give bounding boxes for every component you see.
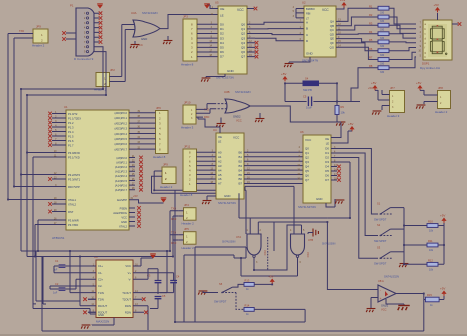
svg-text:R1IN: R1IN [125,304,131,308]
svg-text:Q5: Q5 [305,169,309,173]
svg-text:GND: GND [316,197,322,201]
svg-text:U3A: U3A [131,11,137,15]
header JP8 (2-way) [438,91,451,109]
decoder U2 74LS47 [304,6,336,57]
svg-text:XTAL1: XTAL1 [68,198,77,202]
wire serial rails into U9 [21,251,173,306]
svg-text:P1.4: P1.4 [68,130,74,134]
wire left vertical rails [8,34,27,257]
svg-text:TXD: TXD [171,208,176,211]
wire C2 to U9 [50,279,88,289]
wire gate feeds from headers [184,247,246,258]
capacitor C1 [59,265,66,267]
svg-text:B5: B5 [238,173,242,177]
wire resistors to +5V rail [438,223,444,264]
svg-text:U7B: U7B [308,238,313,242]
ground below U5 [201,78,210,82]
resistor R11 [427,243,438,247]
svg-text:Q3: Q3 [305,160,309,164]
svg-text:(AD4)P0.4: (AD4)P0.4 [114,132,127,136]
svg-text:D6: D6 [325,174,329,178]
svg-text:LE: LE [218,139,221,143]
svg-text:(A13)P2.5: (A13)P2.5 [115,179,128,183]
svg-text:Q3: Q3 [241,36,245,40]
svg-text:D1: D1 [220,27,224,31]
svg-text:C5: C5 [303,95,307,99]
wire long nets to latch gates [152,190,247,193]
wire S5 to R13 [233,284,244,287]
wire R13 to +5V [254,283,272,286]
svg-text:10uF: 10uF [306,106,312,110]
no-connects on U6 pins [337,165,341,169]
svg-text:TXD: TXD [19,30,24,33]
header JP6 (8-way, MCU port0) [156,111,169,154]
no-connects MCU bottom-right [137,206,141,210]
svg-text:VCC: VCC [125,264,131,268]
wire U6 GND [326,199,335,207]
svg-text:JP9: JP9 [163,163,168,167]
svg-text:S3: S3 [377,246,381,250]
svg-text:JP8: JP8 [438,86,443,90]
ground on switch bus [399,264,408,268]
svg-text:R6: R6 [369,47,373,51]
wire R15 to +5V [439,296,444,300]
svg-text:(AD6)P0.6: (AD6)P0.6 [114,142,127,146]
wire JP5 pins [178,235,183,240]
wire row-8 feed [351,68,378,102]
svg-text:D2: D2 [325,156,329,160]
svg-text:+5V: +5V [434,3,439,7]
svg-text:VCC: VCC [233,136,240,140]
bottom window edge [0,334,467,336]
wire bottom loop [36,251,80,304]
op-amp U8 [378,285,396,302]
svg-text:10k: 10k [341,111,346,115]
ground right of U3B [259,113,261,118]
svg-text:DSP1: DSP1 [422,62,430,66]
svg-text:D5: D5 [325,169,329,173]
svg-text:P1.6: P1.6 [68,139,74,143]
ground below JP8 [416,105,425,109]
resistors R1-R8 with values [378,6,389,10]
svg-text:T2OUT: T2OUT [122,297,131,301]
resistor R10 [427,224,438,228]
rotated ground near U7B [313,229,318,237]
svg-text:C1: C1 [55,259,59,263]
svg-text:(A11)P2.3: (A11)P2.3 [115,170,127,174]
svg-text:AT89C51: AT89C51 [52,236,65,240]
svg-text:SW-SPDT: SW-SPDT [374,239,387,243]
svg-text:VCC: VCC [381,308,387,312]
wire C3 [141,269,158,294]
wire U6 outputs to switches [337,149,378,215]
wire JP3 to U5 data pins [197,24,218,56]
wire MCU P0 to JP6 [129,113,150,149]
svg-text:T1IN: T1IN [98,291,104,295]
svg-text:Header 2: Header 2 [435,110,448,114]
svg-text:GND2: GND2 [233,114,241,118]
svg-text:(A9)P2.1: (A9)P2.1 [116,160,127,164]
power flag at MCU EA [161,199,167,203]
svg-text:D1: D1 [325,151,329,155]
power +5V at U9 VCC [141,255,153,266]
svg-text:U4: U4 [213,128,217,132]
svg-text:R2: R2 [369,13,373,17]
header JP5 (2-way) [184,232,197,245]
wire U2 control stubs [296,9,304,18]
wire C5b [150,299,158,309]
wire latch cross-coupling [239,190,327,276]
svg-text:C2+: C2+ [98,278,103,282]
svg-text:Q0: Q0 [241,22,245,26]
svg-text:Q2: Q2 [305,156,309,160]
wire U3A inputs [122,25,135,30]
svg-text:R4: R4 [369,30,373,34]
svg-text:SW-SPDT: SW-SPDT [214,300,227,304]
svg-text:(AD1)P0.1: (AD1)P0.1 [114,116,127,120]
svg-text:B7: B7 [238,182,242,186]
capacitor C3 [155,281,162,283]
svg-text:D7: D7 [325,178,329,182]
svg-text:330: 330 [380,54,385,57]
svg-text:R3: R3 [369,21,373,25]
wire U3A output to U5 LE [160,15,218,29]
svg-text:R2IN: R2IN [125,311,131,315]
svg-text:A1: A1 [218,155,222,159]
wire JP8 pins [424,90,438,104]
capacitor C2 [59,288,66,290]
svg-text:S5: S5 [219,282,223,286]
svg-text:JP6: JP6 [156,106,161,110]
svg-text:+: + [380,297,382,301]
svg-text:Q7: Q7 [305,178,309,182]
header JP11 (8-way) [183,149,197,192]
svg-text:RXD: RXD [171,218,176,221]
switch S3 SW-SPDT [380,257,382,259]
svg-text:330: 330 [380,45,385,48]
wire MCU P2 stubs [129,158,135,190]
svg-text:RST: RST [68,210,74,214]
svg-text:JP7: JP7 [390,86,395,90]
svg-text:B2: B2 [238,159,242,163]
svg-text:RBI: RBI [306,12,311,16]
svg-text:D3: D3 [220,36,224,40]
svg-text:(AD7)P0.7: (AD7)P0.7 [114,147,127,151]
svg-text:C1+: C1+ [98,264,103,268]
svg-text:Header 8: Header 8 [153,155,166,159]
svg-text:C5: C5 [162,294,166,298]
svg-text:RDY/VPP: RDY/VPP [68,185,80,189]
svg-text:R8: R8 [369,64,373,68]
wire C1 to U9 [54,266,88,273]
svg-text:Header 2: Header 2 [32,44,45,48]
wire U6 net down [337,162,350,218]
svg-text:XTAL2: XTAL2 [119,224,128,228]
svg-text:D4: D4 [220,41,224,45]
wire U5 VCC stub [247,8,254,10]
wire bottom bus border [41,330,43,332]
header JP9 (2-way) [162,167,176,184]
wire JP10 pins [196,109,203,117]
header JP1A (below DB9) [96,73,110,87]
wire T1OUT loop [141,293,167,330]
no-connect stubs left of DB9 [66,33,76,39]
capacitor C5 [308,97,311,107]
svg-text:Q5: Q5 [241,46,245,50]
svg-text:D3: D3 [325,160,329,164]
svg-text:JP3: JP3 [183,15,188,19]
svg-text:S1: S1 [377,202,381,206]
svg-text:D2: D2 [220,32,224,36]
svg-text:(A10)P2.2: (A10)P2.2 [115,165,128,169]
power flag on DB9 shell [99,5,101,8]
ground near U3A [134,41,136,44]
svg-text:C2-: C2- [98,284,102,288]
svg-text:P3.3/INT1: P3.3/INT1 [68,177,81,181]
svg-text:U8:A: U8:A [378,279,384,283]
resistor R12 [427,262,438,266]
wire bus to pull resistors [404,226,427,265]
wire serial header nets [170,211,178,257]
svg-text:S4: S4 [305,77,309,81]
svg-text:SN74LS373N: SN74LS373N [218,201,236,205]
svg-text:B1: B1 [238,155,242,159]
wire latch output to comparator [327,222,378,290]
wire DB9 pin stubs [94,13,99,51]
svg-text:D4: D4 [325,165,329,169]
power +5V at display [435,7,440,10]
wire JP7 pins [378,90,390,110]
wire MAX232 left stubs [88,266,96,312]
svg-text:LE: LE [326,142,329,146]
svg-text:Header 3: Header 3 [387,114,400,118]
svg-text:A4: A4 [218,168,222,172]
svg-text:-: - [380,289,381,293]
svg-text:R10: R10 [428,220,433,224]
switch S1 SW-SPDT [380,213,382,215]
svg-text:GND: GND [98,313,104,317]
svg-text:SN74LS373N: SN74LS373N [298,205,316,209]
svg-text:Header 2: Header 2 [182,222,195,226]
resistor R9 (pull) [335,106,339,115]
svg-text:P1.1/T2EX: P1.1/T2EX [68,116,81,120]
svg-text:C2: C2 [55,282,59,286]
svg-text:P3.0/RXD: P3.0/RXD [68,151,80,155]
wire U4 GND [207,196,216,200]
wire MCU EA to +5V [129,200,164,203]
svg-text:MAX232N: MAX232N [96,320,109,324]
svg-text:D7: D7 [220,55,224,59]
wire U5 Q0-Q3 to U2 inputs [255,22,304,24]
svg-text:R13: R13 [245,279,250,283]
junction dots [423,293,425,295]
svg-text:A5: A5 [218,173,222,177]
svg-text:SW-SPDT: SW-SPDT [374,262,387,266]
svg-text:VCC: VCC [237,8,244,12]
svg-text:B: B [306,27,308,31]
header JP3 (8-way) [183,19,197,61]
svg-text:Header 2: Header 2 [160,185,173,189]
svg-text:D5: D5 [220,46,224,50]
svg-text:+5V: +5V [440,287,445,291]
power +5V at JP8 [417,85,422,88]
wire U5 output pins [247,24,255,56]
svg-text:U2: U2 [302,1,306,5]
svg-text:R12: R12 [428,258,433,262]
svg-text:(AD5)P0.5: (AD5)P0.5 [114,137,127,141]
ground below U2 [284,64,293,68]
svg-text:R14: R14 [245,304,250,308]
wire resistors to display pins [389,8,416,67]
power +5V switch rail [441,218,446,221]
display DSP1 7-segment [423,20,452,60]
svg-text:P1: P1 [70,4,74,8]
latch U5 74LS373 [218,6,247,74]
wire U2 VCC to +5V [336,6,344,9]
svg-text:QG: QG [330,45,334,49]
wire JP1A pins to U3A inputs [110,25,126,82]
svg-text:GND: GND [227,69,235,73]
svg-text:GND: GND [306,52,314,56]
power +5V near U6 [349,126,354,129]
svg-text:JP11: JP11 [184,145,191,149]
svg-text:+5V: +5V [348,122,353,126]
wire gate feedback risers [267,237,269,270]
svg-text:GND: GND [121,220,127,224]
svg-text:SN74LS00N: SN74LS00N [222,241,236,244]
svg-text:JP5: JP5 [184,227,189,231]
svg-text:SN74LS32N: SN74LS32N [142,11,158,15]
svg-text:V+: V+ [128,271,132,275]
svg-text:VCC: VCC [305,138,312,142]
or-gate U3B [225,99,250,113]
MCU U1 AT89C51 [66,110,129,230]
svg-text:VCC: VCC [121,215,127,219]
svg-text:Header 2: Header 2 [182,246,195,250]
wire op-amp plus input [371,298,378,309]
svg-text:R11: R11 [428,239,433,243]
svg-text:Header 8: Header 8 [181,63,194,67]
svg-text:SN74LS32N: SN74LS32N [384,275,399,279]
svg-text:RXD: RXD [171,242,176,245]
wire reset network [285,83,360,105]
wire U5 GND pin [206,74,225,78]
no-connects on DB9 pins [99,11,103,15]
ground right of U3A [167,36,169,40]
power +5V at JP7 [372,85,377,88]
svg-text:BI/RBO: BI/RBO [306,7,315,11]
svg-text:Header 8: Header 8 [180,193,193,197]
wire MCU P3.6 P3.7 to serial rails [35,220,52,257]
svg-text:T2IN: T2IN [98,297,104,301]
svg-text:Q4: Q4 [305,165,309,169]
driver U9 MAX232 [96,260,133,318]
latch U6 74LS373 [303,135,331,203]
svg-text:JP4: JP4 [184,203,189,207]
wire JP9 to gate nets [152,171,163,193]
svg-text:Q6: Q6 [241,50,245,54]
power +5V reset [282,76,287,79]
header J1 (top-left) [33,29,48,43]
wire JP4 pins [178,211,183,216]
svg-text:A2: A2 [218,159,222,163]
svg-text:A7: A7 [218,182,222,186]
svg-text:(AD2)P0.2: (AD2)P0.2 [114,121,127,125]
svg-text:330: 330 [380,11,385,14]
svg-text:Q6: Q6 [305,174,309,178]
resistor R13 [244,283,254,287]
no-connects on MCU P2 [139,156,143,160]
svg-text:B4: B4 [238,168,242,172]
ground at op-amp supply [398,306,410,311]
svg-text:A: A [306,21,308,25]
svg-text:OE: OE [218,135,222,139]
wire op-amp output loop [42,257,425,332]
svg-text:R15: R15 [427,293,432,297]
resistor R14 [244,308,254,312]
wire MCU left pin stubs [52,114,66,225]
svg-text:T1OUT: T1OUT [122,291,131,295]
svg-text:VCC: VCC [236,119,242,123]
svg-text:P1.3: P1.3 [68,125,74,129]
wire U3B inputs [214,104,227,109]
svg-text:D0: D0 [220,22,224,26]
header JP4 (2-way) [184,208,197,221]
svg-text:P3.1/TXD: P3.1/TXD [68,155,80,159]
capacitor C5b [155,297,162,299]
connector P1 DB9 [76,8,94,56]
svg-text:U3B: U3B [224,90,230,94]
svg-text:P1.7: P1.7 [68,143,74,147]
wire JP11 to U4 pins [197,152,217,183]
svg-text:D6: D6 [220,50,224,54]
svg-text:(A15)P2.7: (A15)P2.7 [115,188,128,192]
svg-text:SN74LS00N: SN74LS00N [322,243,336,246]
wire T1OUT to left rail [160,251,167,293]
svg-text:+5V: +5V [371,81,376,85]
svg-text:(A8)P2.0: (A8)P2.0 [116,156,127,160]
wire U7A pins [250,222,258,270]
svg-text:R9: R9 [341,105,345,109]
wire rail branches to MCU [8,153,52,309]
svg-text:+5V: +5V [268,275,273,279]
svg-text:VCC: VCC [322,8,329,12]
svg-text:A0: A0 [218,151,222,155]
push-button S4 (reset) [303,81,319,86]
svg-text:R1OUT: R1OUT [98,304,107,308]
ground below U9 [81,325,90,329]
svg-text:(A12)P2.4: (A12)P2.4 [115,174,128,178]
ground right of U6 [335,200,344,204]
svg-text:(A14)P2.6: (A14)P2.6 [115,183,128,187]
ground at op-amp input [366,309,375,313]
svg-text:SW-SPDT: SW-SPDT [374,218,387,222]
svg-text:330: 330 [380,71,385,74]
svg-text:R7: R7 [369,56,373,60]
svg-text:A6: A6 [218,177,222,181]
svg-text:VCC: VCC [263,250,267,256]
wire J1 pins to left rails [8,34,33,39]
svg-text:TXD: TXD [171,232,176,235]
wire bus U4 to U6 [244,152,303,183]
svg-text:LE: LE [220,14,224,18]
svg-text:JP10: JP10 [184,101,191,105]
svg-text:330: 330 [380,37,385,40]
svg-text:V-: V- [128,278,131,282]
no-connects U9 left [83,297,87,301]
wire U6 OE loop [331,122,348,143]
svg-text:+5V: +5V [440,214,445,218]
